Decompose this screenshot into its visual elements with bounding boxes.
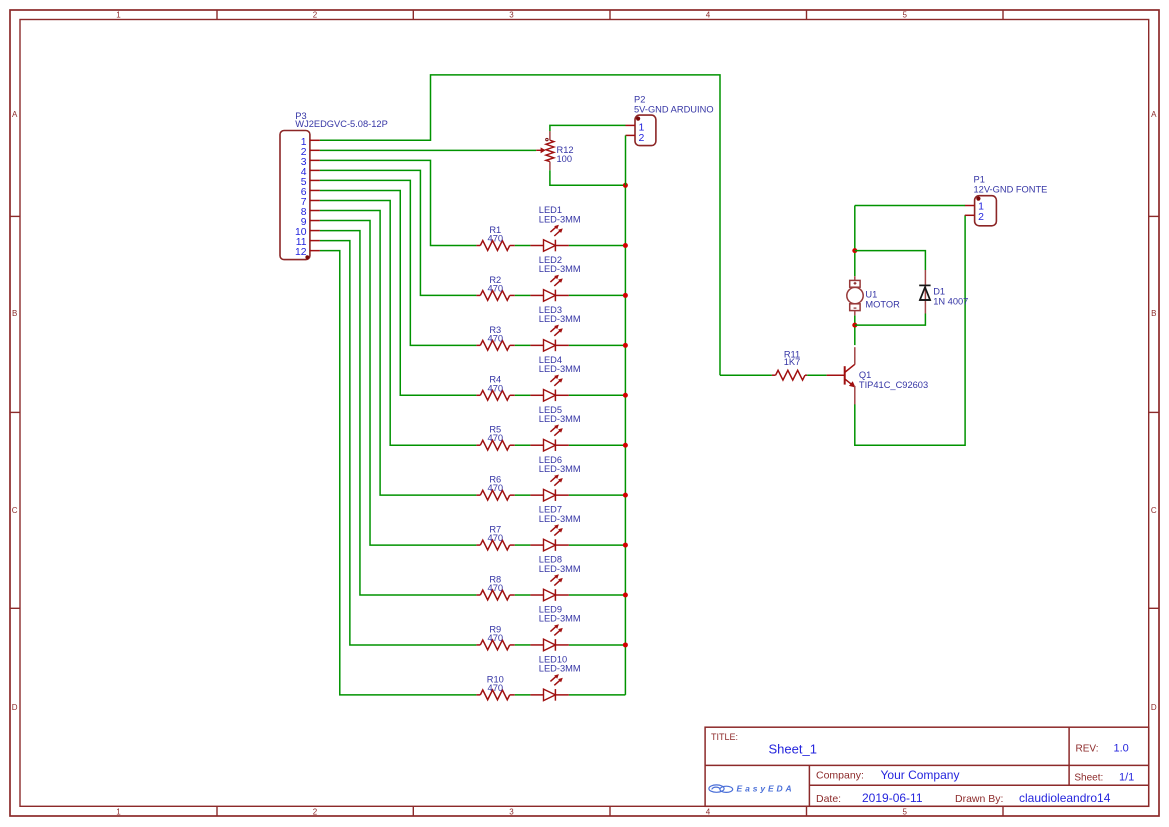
- junction row 8: [623, 593, 628, 598]
- svg-text:Sheet:: Sheet:: [1074, 773, 1103, 784]
- wire LED to bus: [569, 294, 626, 296]
- LED LED1 LED-3MM: [530, 245, 543, 247]
- svg-text:WJ2EDGVC-5.08-12P: WJ2EDGVC-5.08-12P: [295, 119, 387, 129]
- svg-text:2019-06-11: 2019-06-11: [862, 791, 923, 805]
- wire: [515, 444, 531, 446]
- svg-text:Date:: Date:: [816, 793, 841, 805]
- svg-text:470: 470: [488, 533, 504, 543]
- wire: [515, 694, 531, 696]
- svg-text:470: 470: [488, 234, 504, 244]
- wire P3 pin10 to R8: [320, 231, 477, 595]
- svg-text:LED-3MM: LED-3MM: [539, 364, 581, 374]
- junction row 1: [623, 243, 628, 248]
- wire motor top to D1: [855, 251, 926, 270]
- svg-text:5V-GND ARDUINO: 5V-GND ARDUINO: [634, 104, 714, 114]
- svg-text:1/1: 1/1: [1119, 772, 1134, 784]
- wire P1 pin1 to motor top: [855, 205, 965, 207]
- diode D1 1N 4007: [924, 270, 926, 314]
- resistor R8 470: [476, 594, 480, 596]
- resistor R3 470: [476, 344, 480, 346]
- svg-text:P2: P2: [634, 95, 645, 105]
- svg-text:5: 5: [902, 808, 907, 817]
- junction motor bottom: [852, 323, 857, 328]
- svg-text:2: 2: [313, 808, 318, 817]
- wire P3 pin7 to R5: [320, 200, 477, 445]
- svg-text:D1: D1: [933, 287, 945, 297]
- junction motor top: [852, 248, 857, 253]
- svg-text:1.0: 1.0: [1114, 743, 1129, 755]
- svg-text:5: 5: [902, 10, 907, 19]
- resistor R7 470: [476, 544, 480, 546]
- wire: [515, 494, 531, 496]
- wire D1 bottom to motor bottom: [855, 314, 926, 326]
- wire LED to bus: [569, 344, 626, 346]
- svg-text:Your Company: Your Company: [881, 768, 960, 782]
- resistor R1 470: [476, 245, 480, 247]
- wire LED to bus: [569, 694, 626, 696]
- wire: [515, 544, 531, 546]
- wire pin1 to top rail and R11: [320, 75, 720, 375]
- svg-text:Company:: Company:: [816, 770, 864, 782]
- svg-text:470: 470: [488, 483, 504, 493]
- wire P3 pin6 to R4: [320, 190, 477, 395]
- svg-text:claudioleandro14: claudioleandro14: [1019, 791, 1111, 805]
- wire Q1 collector up / emitter down: [854, 325, 856, 345]
- svg-text:EasyEDA: EasyEDA: [737, 784, 795, 794]
- wire LED to bus: [569, 444, 626, 446]
- wire P3 pin5 to R3: [320, 180, 477, 345]
- svg-text:C: C: [1151, 506, 1157, 515]
- LED LED9 LED-3MM: [530, 644, 543, 646]
- svg-text:LED-3MM: LED-3MM: [539, 214, 581, 224]
- svg-text:C: C: [12, 506, 18, 515]
- svg-text:Drawn By:: Drawn By:: [955, 793, 1003, 805]
- connector P3 WJ2EDGVC-5.08-12P: [280, 131, 310, 260]
- LED LED4 LED-3MM: [530, 394, 543, 396]
- transistor Q1 TIP41C_C92603: [827, 374, 845, 376]
- junction row 5: [623, 443, 628, 448]
- wire P3 pin4 to R2: [320, 170, 477, 295]
- svg-text:1: 1: [116, 10, 121, 19]
- svg-text:470: 470: [488, 383, 504, 393]
- svg-text:LED-3MM: LED-3MM: [539, 564, 581, 574]
- svg-text:Q1: Q1: [859, 370, 871, 380]
- svg-text:MOTOR: MOTOR: [865, 299, 900, 309]
- LED LED3 LED-3MM: [530, 344, 543, 346]
- svg-text:4: 4: [706, 10, 711, 19]
- wire LED to bus: [569, 594, 626, 596]
- svg-text:LED-3MM: LED-3MM: [539, 464, 581, 474]
- resistor R5 470: [476, 444, 480, 446]
- svg-text:TITLE:: TITLE:: [711, 732, 738, 742]
- svg-text:A: A: [12, 110, 18, 119]
- svg-text:2: 2: [978, 211, 984, 223]
- svg-text:3: 3: [509, 10, 514, 19]
- svg-text:470: 470: [488, 433, 504, 443]
- junction bus top: [623, 183, 628, 188]
- svg-text:1K7: 1K7: [784, 357, 801, 367]
- wire R12 bottom to bus junction: [550, 170, 626, 185]
- svg-text:12V-GND FONTE: 12V-GND FONTE: [974, 184, 1048, 194]
- svg-text:LED-3MM: LED-3MM: [539, 514, 581, 524]
- svg-text:470: 470: [488, 583, 504, 593]
- junction row 4: [623, 393, 628, 398]
- svg-text:1N 4007: 1N 4007: [933, 297, 968, 307]
- LED LED6 LED-3MM: [530, 494, 543, 496]
- wire LED to bus: [569, 644, 626, 646]
- wire P3 pin9 to R7: [320, 221, 477, 546]
- svg-text:12: 12: [295, 247, 307, 258]
- LED LED2 LED-3MM: [530, 294, 543, 296]
- wire P3 pin12 to R10: [320, 251, 477, 695]
- svg-text:TIP41C_C92603: TIP41C_C92603: [859, 380, 928, 390]
- svg-text:Sheet_1: Sheet_1: [769, 742, 817, 757]
- resistor R2 470: [476, 294, 480, 296]
- resistor R9 470: [476, 644, 480, 646]
- wire LED to bus: [569, 544, 626, 546]
- wire: [515, 344, 531, 346]
- svg-text:4: 4: [706, 808, 711, 817]
- wire R12 top to P2 pin1: [550, 125, 626, 131]
- svg-text:LED-3MM: LED-3MM: [539, 264, 581, 274]
- resistor R4 470: [476, 394, 480, 396]
- svg-text:LED-3MM: LED-3MM: [539, 614, 581, 624]
- wire pin2 to R12 wiper: [320, 149, 536, 151]
- wire: [515, 594, 531, 596]
- svg-text:D: D: [1151, 703, 1157, 712]
- rheostat R12 100: [536, 149, 541, 151]
- wire P3 pin3 to R1: [320, 160, 477, 245]
- junction row 6: [623, 493, 628, 498]
- wire: [515, 245, 531, 247]
- wire LED to bus: [569, 394, 626, 396]
- wire P2 pin2 to bus: [625, 135, 627, 185]
- svg-text:REV:: REV:: [1076, 744, 1099, 755]
- svg-text:2: 2: [313, 10, 318, 19]
- wire: [515, 294, 531, 296]
- wire P3 pin11 to R9: [320, 241, 477, 645]
- LED LED10 LED-3MM: [530, 694, 543, 696]
- svg-text:470: 470: [488, 633, 504, 643]
- svg-text:470: 470: [488, 333, 504, 343]
- resistor R11 1K7: [720, 374, 772, 376]
- svg-text:LED-3MM: LED-3MM: [539, 664, 581, 674]
- svg-text:D: D: [12, 703, 18, 712]
- junction row 7: [623, 543, 628, 548]
- connector P2 5V-GND ARDUINO: [635, 115, 656, 146]
- wire LED to bus: [569, 494, 626, 496]
- junction row 9: [623, 642, 628, 647]
- junction row 3: [623, 343, 628, 348]
- svg-text:U1: U1: [865, 290, 877, 300]
- resistor R6 470: [476, 494, 480, 496]
- LED LED5 LED-3MM: [530, 444, 543, 446]
- EasyEDA logo: [709, 785, 733, 793]
- wire LED to bus: [569, 245, 626, 247]
- wire: [515, 644, 531, 646]
- svg-text:100: 100: [557, 154, 573, 164]
- svg-text:3: 3: [509, 808, 514, 817]
- junction row 2: [623, 293, 628, 298]
- svg-text:A: A: [1151, 110, 1157, 119]
- title block: [705, 727, 1149, 806]
- wire: [807, 374, 826, 376]
- LED LED7 LED-3MM: [530, 544, 543, 546]
- svg-text:470: 470: [488, 683, 504, 693]
- svg-text:470: 470: [488, 283, 504, 293]
- svg-text:2: 2: [638, 132, 644, 144]
- wire: [515, 394, 531, 396]
- GND bus vertical: [624, 185, 626, 695]
- resistor R10 470: [476, 694, 480, 696]
- wire P3 pin8 to R6: [320, 211, 477, 496]
- svg-text:LED-3MM: LED-3MM: [539, 414, 581, 424]
- motor U1 branch wires: [854, 206, 856, 277]
- svg-text:B: B: [1151, 309, 1156, 318]
- svg-text:P1: P1: [974, 175, 985, 185]
- connector P1 12V-GND FONTE: [975, 196, 997, 226]
- motor U1: [854, 276, 856, 280]
- svg-text:B: B: [12, 309, 17, 318]
- svg-text:1: 1: [116, 808, 121, 817]
- P3 pin1 marker dot: [305, 255, 309, 259]
- svg-text:LED-3MM: LED-3MM: [539, 314, 581, 324]
- LED LED8 LED-3MM: [530, 594, 543, 596]
